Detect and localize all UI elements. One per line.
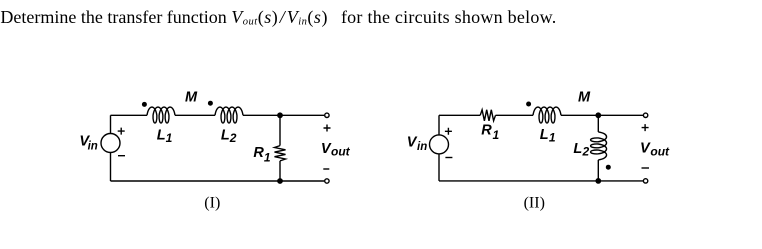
svg-text:(II): (II): [524, 194, 545, 211]
svg-text:R: R: [253, 145, 264, 161]
svg-text:L: L: [573, 141, 582, 157]
svg-text:L: L: [221, 127, 230, 143]
svg-text:1: 1: [493, 128, 500, 142]
svg-text:out: out: [650, 144, 670, 158]
svg-text:(I): (I): [204, 194, 220, 211]
svg-text:V: V: [640, 140, 651, 156]
svg-text:1: 1: [549, 131, 556, 145]
svg-text:2: 2: [229, 131, 237, 145]
svg-text:in: in: [88, 140, 98, 152]
svg-text:R: R: [481, 123, 492, 139]
svg-text:M: M: [578, 90, 591, 106]
svg-text:L: L: [157, 127, 166, 143]
svg-text:1: 1: [264, 151, 271, 165]
svg-text:L: L: [540, 127, 549, 143]
svg-text:in: in: [417, 141, 427, 153]
svg-text:2: 2: [582, 145, 590, 159]
svg-text:1: 1: [166, 131, 173, 145]
svg-text:M: M: [185, 89, 198, 105]
svg-text:out: out: [331, 145, 351, 159]
